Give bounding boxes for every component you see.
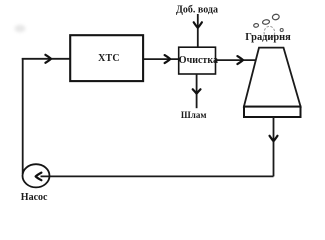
label Gradirnya (cooling tower) bbox=[245, 32, 291, 43]
arrowhead into cooling tower bbox=[237, 56, 243, 64]
svg-text:Градирня: Градирня bbox=[245, 32, 291, 43]
label Nasos (pump) bbox=[21, 192, 48, 203]
steam bubble 1 bbox=[272, 14, 280, 21]
block XTC (box) bbox=[70, 35, 143, 81]
arrowhead into XTC box bbox=[45, 55, 51, 63]
label Shlam (sludge) bbox=[181, 110, 207, 120]
label XTC bbox=[98, 53, 120, 64]
label Dob. voda (make-up water) bbox=[176, 5, 218, 16]
svg-text:Доб. вода: Доб. вода bbox=[176, 5, 218, 16]
cooling tower basin (base rectangle) bbox=[244, 107, 301, 117]
svg-text:Насос: Насос bbox=[21, 192, 48, 203]
pump (circle) bbox=[23, 164, 50, 187]
cooling tower shell (trapezoid) bbox=[244, 48, 301, 107]
steam bubble 5 (large faint) bbox=[264, 26, 275, 38]
arrowhead tower outlet down bbox=[270, 136, 278, 141]
wire: Ochistka to cooling tower bbox=[216, 59, 257, 61]
steam bubble 2 bbox=[262, 19, 270, 25]
label Ochistka bbox=[179, 55, 218, 66]
block Ochistka (purification box) bbox=[179, 47, 216, 74]
wire: bottom return line to pump bbox=[41, 175, 274, 177]
steam bubble 4 bbox=[280, 29, 283, 32]
wire: make-up water down into Ochistka bbox=[197, 14, 199, 47]
arrowhead down into Ochistka bbox=[194, 22, 202, 28]
wire: XTC to Ochistka bbox=[144, 58, 179, 60]
wire: left recycle riser (pump up to top-left corner) bbox=[22, 58, 24, 174]
svg-text:ХТС: ХТС bbox=[98, 53, 120, 64]
wire: tower outlet down bbox=[273, 117, 275, 176]
steam bubble 3 bbox=[253, 23, 258, 27]
arrowhead into pump (left) bbox=[36, 173, 42, 181]
svg-text:Очистка: Очистка bbox=[179, 55, 218, 66]
wire: top-left horizontal into XTC box bbox=[22, 58, 71, 60]
arrowhead sludge down bbox=[193, 89, 201, 93]
wire: sludge drain down from Ochistka bbox=[196, 74, 198, 108]
svg-text:Шлам: Шлам bbox=[181, 110, 207, 120]
arrowhead into Ochistka bbox=[165, 55, 171, 63]
